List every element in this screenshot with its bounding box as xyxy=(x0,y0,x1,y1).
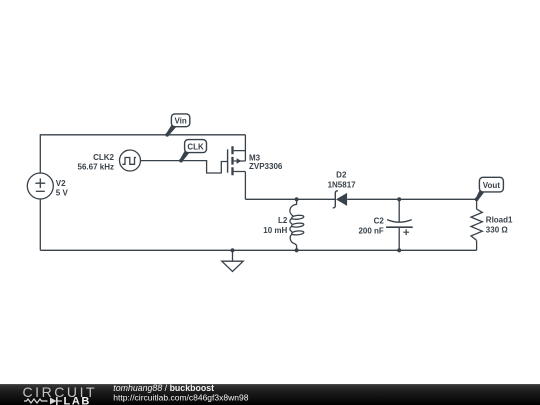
svg-text:200 nF: 200 nF xyxy=(358,227,383,236)
inductor L2 xyxy=(290,199,304,250)
svg-text:Rload1: Rload1 xyxy=(486,216,513,225)
wire Rload bottom lead xyxy=(476,240,478,250)
wire C2 bottom lead xyxy=(398,227,400,250)
svg-text:C2: C2 xyxy=(374,217,385,226)
resistor Rload1 xyxy=(471,209,482,240)
wire M3 drain down xyxy=(244,172,246,200)
svg-text:5 V: 5 V xyxy=(56,189,69,198)
svg-text:L2: L2 xyxy=(278,216,288,225)
wire bottom ground rail xyxy=(40,249,476,251)
svg-text:M3: M3 xyxy=(249,153,261,162)
wire diode to Vout corner xyxy=(347,198,476,200)
svg-text:330 Ω: 330 Ω xyxy=(486,226,509,235)
svg-text:56.67 kHz: 56.67 kHz xyxy=(78,162,114,171)
node flag Vout xyxy=(475,177,504,201)
svg-text:CLK2: CLK2 xyxy=(93,153,114,162)
junction L2 top node xyxy=(295,197,299,201)
capacitor C2 xyxy=(386,220,413,236)
transistor M3 PMOS xyxy=(228,146,246,175)
junction C2 top node xyxy=(397,197,401,201)
wire Rload top lead xyxy=(476,199,478,209)
footer bar xyxy=(0,384,540,405)
clock source CLK2 xyxy=(120,150,141,171)
logo diode xyxy=(50,398,57,405)
svg-text:1N5817: 1N5817 xyxy=(328,180,357,189)
svg-text:ZVP3306: ZVP3306 xyxy=(249,162,283,171)
labels xyxy=(56,153,513,235)
voltage source V2 xyxy=(27,173,53,199)
wire switch node to diode xyxy=(245,198,335,200)
svg-text:http://circuitlab.com/c846gf3x: http://circuitlab.com/c846gf3x8wn98 xyxy=(113,393,248,403)
wire C2 top lead xyxy=(398,199,400,222)
junction L2 bottom node xyxy=(295,248,299,252)
ground xyxy=(222,261,243,271)
svg-text:D2: D2 xyxy=(336,171,347,180)
node flag CLK xyxy=(179,140,206,163)
svg-text:V2: V2 xyxy=(56,179,66,188)
wire CLK net with staircase to gate xyxy=(141,161,227,173)
svg-text:CLK: CLK xyxy=(187,143,204,152)
wire ground stub xyxy=(232,250,234,261)
node flag Vin xyxy=(165,114,189,137)
wire left rail V2 bottom xyxy=(39,199,41,250)
svg-text:Vin: Vin xyxy=(174,117,186,126)
svg-text:LAB: LAB xyxy=(64,395,91,405)
logo resistor squiggle xyxy=(24,399,48,403)
svg-text:Vout: Vout xyxy=(483,181,501,190)
junction ground node xyxy=(230,248,234,252)
svg-text:tomhuang88 / buckboost: tomhuang88 / buckboost xyxy=(113,384,214,393)
svg-text:10 mH: 10 mH xyxy=(263,226,287,235)
wire top rail Vin net xyxy=(40,135,245,173)
wire M3 source to top rail xyxy=(244,135,246,161)
junction C2 bottom node xyxy=(397,248,401,252)
diode D2 schottky xyxy=(333,191,347,208)
